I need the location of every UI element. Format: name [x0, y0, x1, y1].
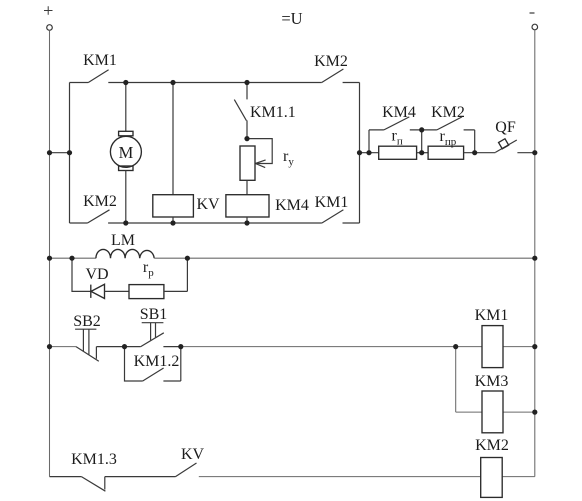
node motor bottom — [123, 220, 128, 225]
wire left bracket vertical — [69, 83, 71, 224]
diode VD cathode bar — [90, 285, 92, 298]
svg-text:rп: rп — [392, 128, 403, 148]
wire between resistors — [417, 152, 429, 154]
node SB2-SB1 — [122, 344, 127, 349]
wire right rail — [534, 30, 536, 477]
svg-text:KM4: KM4 — [382, 104, 416, 121]
breaker QF square — [499, 139, 509, 149]
wire motor branch upper — [125, 83, 127, 132]
svg-text:KV: KV — [181, 446, 205, 463]
contact KM2 (top right) — [322, 69, 360, 83]
terminal - (minus sign) — [530, 12, 535, 14]
svg-text:rр: rр — [143, 259, 154, 279]
terminal + (plus sign) — [44, 6, 53, 14]
wire motor branch lower — [125, 171, 127, 224]
node chain mid — [419, 150, 424, 155]
svg-text:KM1: KM1 — [475, 307, 509, 324]
contact KM1.1 — [234, 100, 247, 139]
node right rail row3 — [532, 344, 537, 349]
node rheostat top — [244, 136, 249, 141]
wire diode to r_p — [105, 290, 130, 292]
resistor r_p1 body — [379, 146, 417, 159]
wire row3 to KM1 coil — [181, 346, 535, 348]
svg-text:QF: QF — [495, 119, 516, 136]
wire KM1.1 upper — [246, 83, 248, 100]
node VD branch — [69, 256, 74, 261]
svg-text:KM1.1: KM1.1 — [250, 104, 296, 121]
node bracket chain — [357, 150, 362, 155]
contact KM4 bypass — [369, 117, 422, 153]
wire KM4 coil to bottom row — [246, 217, 248, 223]
svg-text:KM2: KM2 — [83, 193, 117, 210]
svg-text:LM: LM — [111, 232, 135, 249]
node right rail KM3 — [532, 410, 537, 415]
wire KM3 branch — [456, 347, 535, 413]
svg-text:KM1.3: KM1.3 — [71, 451, 117, 468]
node chain right — [472, 150, 477, 155]
button SB1 plunger — [142, 323, 164, 341]
svg-text:SB2: SB2 — [73, 313, 101, 330]
rheostat r_y body — [240, 146, 255, 180]
svg-text:rпр: rпр — [440, 128, 457, 148]
inductor LM — [96, 249, 154, 258]
terminal - circle — [532, 24, 538, 30]
node bypass mid — [419, 127, 424, 132]
svg-text:KM2: KM2 — [475, 437, 509, 454]
node KM4 bottom — [244, 220, 249, 225]
motor M brush top — [119, 131, 133, 136]
breaker QF blade — [495, 140, 516, 152]
contact KM1.3 — [81, 477, 105, 492]
contact KM1.2 branch — [125, 347, 181, 381]
rheostat r_y arrow head — [255, 160, 265, 168]
resistor r_pr body — [428, 146, 464, 159]
node KV top — [170, 80, 175, 85]
svg-text:KM4: KM4 — [275, 197, 309, 214]
motor M circle — [110, 136, 141, 167]
rheostat r_y loop wire — [247, 139, 272, 164]
wire SB1 to KM1.2 junction — [163, 346, 180, 348]
node motor top — [123, 80, 128, 85]
node KM1.1 top — [244, 80, 249, 85]
motor M brush bottom — [119, 166, 133, 171]
wire chain from bracket — [360, 152, 379, 154]
node left rail row2 — [47, 256, 52, 261]
svg-text:KM1: KM1 — [315, 194, 349, 211]
wire after r_pr — [464, 152, 496, 154]
contact KM1 (top left) — [70, 70, 322, 83]
diode VD triangle — [91, 284, 105, 298]
svg-text:KM1: KM1 — [83, 52, 117, 69]
svg-text:rу: rу — [283, 148, 294, 168]
wire row2 left — [50, 257, 96, 259]
node KV bottom — [170, 220, 175, 225]
node chain r_p1 left — [366, 150, 371, 155]
node right rail row2 — [532, 256, 537, 261]
svg-text:VD: VD — [85, 266, 108, 283]
coil KM2 — [481, 458, 503, 498]
contact KM1 (bottom right) — [322, 210, 360, 223]
node bracket link — [67, 150, 72, 155]
svg-text:KM3: KM3 — [475, 373, 509, 390]
wire link left rail to bracket — [50, 152, 70, 154]
coil KM1 — [482, 326, 503, 368]
wire KV branch lower — [172, 217, 174, 223]
wire right bracket vertical — [359, 83, 361, 224]
node KM3 branch — [453, 344, 458, 349]
svg-text:=U: =U — [281, 9, 302, 28]
wire KM1.3 to KV — [105, 476, 176, 478]
wire QF to right rail — [517, 152, 534, 154]
svg-text:KM2: KM2 — [314, 53, 348, 70]
wire row3 from rail — [50, 346, 77, 348]
coil KM3 — [482, 391, 503, 433]
node left rail row3 — [47, 344, 52, 349]
wire rheostat to KM4 coil — [246, 180, 248, 194]
wire row2 right — [154, 257, 535, 259]
coil KV — [153, 195, 194, 217]
node r_p branch — [185, 256, 190, 261]
wire KV branch upper — [172, 83, 174, 195]
button SB2 contact — [76, 347, 99, 362]
coil KM4 — [226, 195, 269, 217]
svg-text:KV: KV — [196, 196, 220, 213]
button SB1 contact — [141, 333, 164, 347]
svg-text:KM1.2: KM1.2 — [134, 353, 180, 370]
resistor r_p body — [129, 285, 164, 299]
node left rail row1 — [47, 150, 52, 155]
wire KV to KM2 coil — [199, 476, 535, 478]
wire row4 — [50, 476, 82, 478]
contact KV — [176, 463, 197, 477]
contact KM2 (bottom left) — [70, 210, 322, 223]
wire SB2 to SB1 — [96, 346, 140, 348]
svg-text:SB1: SB1 — [140, 306, 168, 323]
wire r_p up to row2 — [164, 258, 188, 291]
terminal + circle — [47, 25, 53, 31]
contact KM2 bypass — [422, 117, 475, 153]
node right rail QF — [532, 150, 537, 155]
wire VD branch down-left — [72, 258, 91, 291]
node SB1 right — [178, 344, 183, 349]
svg-text:M: M — [119, 143, 134, 162]
button SB2 plunger — [75, 329, 96, 355]
wire left rail — [49, 30, 51, 476]
